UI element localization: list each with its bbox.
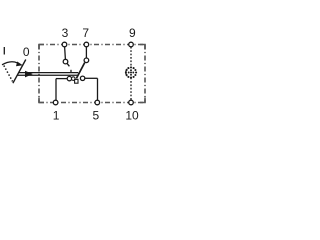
bracket right drop to 5 [97,78,99,100]
bracket bar left segment [56,78,67,80]
wire terminal 3 stem [64,47,67,60]
terminal 1 [53,100,58,105]
push rod arrow [25,71,33,78]
border corner bottom-left [39,98,44,103]
wire terminal 7 stem [85,47,87,58]
svg-text:0: 0 [23,45,30,59]
svg-text:1: 1 [53,109,60,123]
border left (dash-dot) [38,45,40,103]
svg-text:10: 10 [125,109,139,123]
lever position 0 (solid) [13,60,26,84]
terminal 7 [84,42,89,47]
border top (dash-dot) [39,44,145,46]
border corner bottom-right [140,98,145,103]
contact circle for 3 [63,59,68,64]
border corner top-left [39,45,44,50]
svg-text:7: 7 [82,26,89,40]
terminal 10 [129,100,134,105]
lever position I (dashed) [4,66,13,82]
pivot circle P2 [72,77,76,81]
lamp L (dotted circle ring) [130,66,132,68]
push rod double line [19,72,79,74]
contact circle for 7 [84,58,89,63]
lamp left arc [126,69,127,76]
border corner top-right [140,45,145,50]
terminal 5 [95,100,100,105]
terminal 3 [62,42,67,47]
switch arm (closed to 7) [76,63,84,79]
terminal 9 [129,42,134,47]
contact 3 tail [67,63,69,66]
pivot circle P1 [67,76,71,80]
spring block [75,79,78,83]
lamp inner dots cross [130,72,132,74]
lamp wire lamp to 10 (dotted) [130,78,132,101]
bracket left drop to 1 [55,79,57,101]
svg-text:3: 3 [62,26,69,40]
border right (dash-dot) [144,45,146,103]
lamp wire 9 to lamp (dotted) [130,47,132,68]
actuator arc with arrowhead [2,62,18,65]
label position I [3,47,5,55]
svg-text:5: 5 [92,109,99,123]
arm tip stub [70,70,72,73]
svg-text:9: 9 [129,26,136,40]
pivot circle P3 [80,76,84,80]
border bottom (dash-dot) [39,102,145,104]
bracket bar right segment [85,77,98,79]
